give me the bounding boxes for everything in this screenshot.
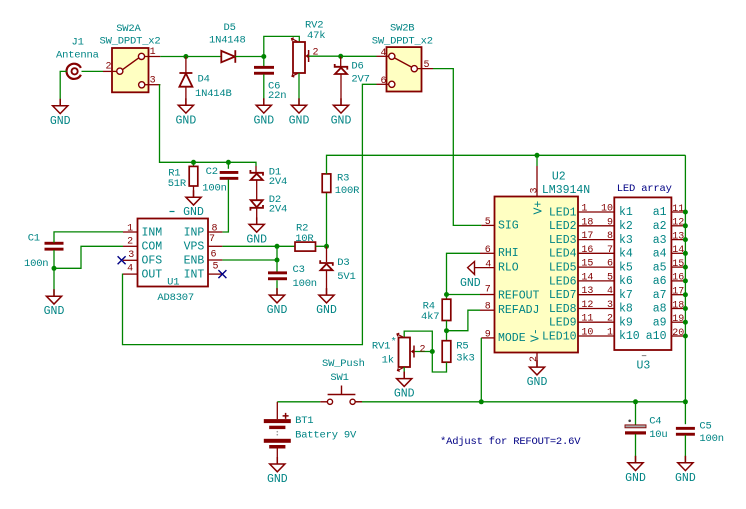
svg-text:1: 1 (150, 47, 156, 58)
svg-text:VPS: VPS (184, 241, 205, 254)
svg-text:GND: GND (394, 388, 415, 401)
node junction R1 (191, 160, 196, 165)
svg-text:100n: 100n (24, 258, 48, 270)
pin U3 a7 to rail (671, 294, 685, 296)
pin U3 a4 to rail (671, 252, 685, 254)
resistor R4 4k7 (442, 299, 451, 320)
svg-text:a5: a5 (653, 261, 667, 274)
pin U3 a5 to rail (671, 266, 685, 268)
svg-text:BT1: BT1 (295, 415, 313, 427)
pin U2 LED3 to U3 k3 (578, 239, 614, 241)
svg-text:10u: 10u (649, 429, 667, 441)
wire C6 to GND (263, 74, 265, 105)
svg-text:GND: GND (176, 114, 197, 127)
ground GND at RV2 (291, 98, 306, 113)
pin U3 a8 to rail (671, 308, 685, 310)
wire MODE to bottom rail (480, 338, 482, 402)
svg-text:2V4: 2V4 (269, 203, 287, 215)
svg-text:V-: V- (530, 328, 543, 342)
node junction a3 rail (683, 237, 688, 242)
node junction C2 (226, 160, 231, 165)
svg-text:5V1: 5V1 (337, 271, 355, 283)
node junction D4 tap (183, 54, 188, 59)
svg-text:LED4: LED4 (549, 248, 577, 261)
svg-text:GND: GND (625, 472, 646, 485)
svg-text:11: 11 (672, 204, 684, 215)
capacitor C2 100n (220, 171, 239, 180)
pin U3 a9 to rail (671, 321, 685, 323)
wire C1 node to GND (53, 268, 55, 296)
svg-text:10R: 10R (295, 233, 314, 245)
svg-text:LED2: LED2 (549, 220, 577, 233)
svg-text:V+: V+ (533, 201, 546, 215)
svg-text:C1: C1 (28, 232, 40, 244)
IC U3 LED array (614, 183, 671, 373)
wire D4 to GND (185, 87, 187, 106)
svg-text:13: 13 (672, 231, 684, 242)
svg-text:a4: a4 (653, 248, 667, 261)
node junction C5/rail (683, 399, 688, 404)
svg-text:INP: INP (184, 226, 205, 239)
svg-text:a9: a9 (653, 316, 667, 329)
ground GND at D3 (319, 288, 334, 303)
svg-text:LED1: LED1 (549, 206, 577, 219)
svg-text:OFS: OFS (142, 255, 163, 268)
wire SW2B pin5 to U2 SIG (433, 69, 481, 226)
svg-text:GND: GND (44, 305, 65, 318)
svg-text:9: 9 (607, 217, 613, 228)
pin U3 a1 to rail (671, 211, 685, 213)
node junction R4/R5/REFADJ (444, 328, 449, 333)
pin SW2B pin5 (417, 68, 433, 70)
svg-text:k1: k1 (619, 206, 633, 219)
svg-text:19: 19 (672, 314, 684, 325)
pin U3 a2 to rail (671, 225, 685, 227)
pin U1 pin2 COM (123, 245, 138, 247)
svg-text:13: 13 (581, 286, 593, 297)
no-connect X at U1 pin5 (218, 270, 226, 278)
svg-text:k4: k4 (619, 248, 633, 261)
svg-text:5: 5 (424, 60, 430, 71)
svg-text:2: 2 (106, 62, 112, 73)
wire R1 to GND (193, 186, 195, 197)
pin U2 pin6 RHI (480, 252, 495, 254)
wire rail to C4 (635, 402, 637, 425)
wire ENB to C3 node (222, 259, 277, 261)
pin U2 pin4 RLO (475, 267, 495, 269)
wire R3 to VPS node (326, 192, 328, 246)
pin SW2B pin4 (377, 55, 390, 57)
wire battery to SW1 (277, 401, 320, 403)
wire node to R5 (446, 331, 448, 341)
svg-text:10: 10 (581, 328, 593, 339)
svg-text:GND: GND (289, 114, 310, 127)
wire R2 to D3 node (316, 245, 327, 247)
svg-text:SW2A: SW2A (116, 23, 141, 35)
svg-text:100n: 100n (202, 182, 226, 194)
svg-text:47k: 47k (307, 30, 325, 42)
svg-text:ENB: ENB (184, 255, 205, 268)
svg-text:a3: a3 (653, 234, 667, 247)
diode D4 1N414B (179, 73, 192, 87)
svg-text:MODE: MODE (498, 332, 526, 345)
svg-text:3: 3 (128, 250, 134, 261)
svg-text:100R: 100R (335, 185, 360, 197)
svg-text:LM3914N: LM3914N (542, 184, 590, 197)
svg-text:8: 8 (212, 223, 218, 234)
svg-text:18: 18 (672, 300, 684, 311)
pin SW2A pin2 (103, 70, 117, 72)
svg-text:2: 2 (529, 356, 540, 362)
diode D5 1N4148 (221, 50, 235, 63)
resistor R5 3k3 (442, 341, 451, 363)
wire SW2A pin3 to R1/C2/D1 (160, 85, 257, 166)
svg-text:D4: D4 (198, 74, 210, 86)
svg-text:15: 15 (581, 259, 593, 270)
svg-text:14: 14 (581, 272, 593, 283)
wire C6 node to RV2 pin1 (264, 36, 300, 56)
wire node to C6 (263, 57, 265, 67)
IC U2 LM3914N (495, 171, 591, 353)
wire VPS node to ENB node (276, 246, 278, 260)
svg-text:Antenna: Antenna (56, 50, 99, 62)
wire RV2 pin3 to GND (298, 73, 300, 105)
wire C1 to U1 INM (54, 232, 123, 243)
svg-text:U2: U2 (552, 171, 566, 184)
svg-text:LED7: LED7 (549, 289, 577, 302)
pin U1 pin3 OFS (123, 259, 138, 261)
svg-text:k8: k8 (619, 303, 633, 316)
node junction REFOUT/R4 (444, 292, 449, 297)
svg-text:GND: GND (267, 304, 288, 317)
pin U2 pin9 MODE (481, 337, 494, 339)
no-connect X at U1 pin3 (118, 256, 126, 264)
svg-text:REFOUT: REFOUT (498, 290, 540, 303)
pin U2 LED9 to U3 k9 (578, 321, 614, 323)
pin U2 LED2 to U3 k2 (578, 225, 614, 227)
svg-text:100n: 100n (293, 278, 317, 290)
node junction a10 rail (683, 334, 688, 339)
node junction a8 rail (683, 306, 688, 311)
node junction C4 (633, 399, 638, 404)
wire V+ rail (327, 155, 686, 174)
svg-text:GND: GND (50, 115, 71, 128)
svg-text:GND: GND (316, 304, 337, 317)
capacitor C6 22n (254, 66, 274, 75)
wire RV2 wiper to junction (309, 55, 341, 57)
svg-text:6: 6 (211, 250, 217, 261)
wire SW2A pin1 to D5 (160, 56, 221, 58)
svg-text:17: 17 (581, 231, 593, 242)
pin U2 LED6 to U3 k6 (578, 280, 614, 282)
ground GND at R1 (186, 190, 201, 205)
svg-text:GND: GND (460, 277, 481, 290)
svg-text:RLO: RLO (498, 261, 519, 274)
svg-text:D6: D6 (351, 60, 363, 72)
svg-text:GND: GND (527, 376, 548, 389)
svg-text:2: 2 (607, 314, 613, 325)
pin U2 pin3 V+ (536, 166, 538, 197)
svg-text:GND: GND (331, 114, 352, 127)
svg-text:16: 16 (581, 245, 593, 256)
wire SW1 to right rail (355, 401, 685, 403)
resistor R1 51R (189, 166, 198, 186)
svg-text:C2: C2 (206, 166, 218, 178)
svg-text:7: 7 (607, 245, 613, 256)
svg-text:a1: a1 (653, 206, 667, 219)
svg-text:LED10: LED10 (542, 330, 577, 343)
svg-text:LED3: LED3 (549, 234, 577, 247)
pin U3 a6 to rail (671, 280, 685, 282)
svg-text:3: 3 (150, 76, 156, 87)
svg-text:D3: D3 (337, 257, 349, 269)
svg-text:a8: a8 (653, 303, 667, 316)
ground GND at D6 (333, 98, 348, 113)
wire C3 to GND (276, 280, 278, 295)
svg-text:GND: GND (253, 114, 274, 127)
svg-text:k5: k5 (619, 261, 633, 274)
svg-text:1N4148: 1N4148 (209, 35, 246, 47)
svg-text:14: 14 (672, 245, 684, 256)
wire antenna to GND (60, 71, 67, 105)
wire RHI to REFOUT (447, 253, 481, 294)
wire R5 to wiper node (432, 352, 446, 373)
wire C2 to U1 INP (222, 179, 228, 232)
svg-text:SW_DPDT_x2: SW_DPDT_x2 (372, 36, 433, 48)
pin U2 pin7 REFOUT (480, 294, 495, 296)
ground GND at RV1 (397, 372, 412, 387)
wire C5 to GND (684, 435, 686, 463)
node junction C6/RV2 (261, 54, 266, 59)
zener diode D2 2V4 (cathode down) (250, 200, 263, 210)
wire node to R4 (446, 295, 448, 300)
svg-text:D5: D5 (224, 22, 236, 34)
wire junction to SW2B pin4 (341, 55, 377, 57)
svg-text:8: 8 (485, 302, 491, 313)
svg-text:SIG: SIG (498, 220, 519, 233)
svg-text:*Adjust for REFOUT=2.6V: *Adjust for REFOUT=2.6V (440, 436, 581, 448)
svg-text:k2: k2 (619, 220, 633, 233)
node junction U2 V+ (535, 153, 540, 158)
pin U1 pin8 INP (208, 231, 222, 233)
ground GND at U2 (529, 360, 544, 375)
wire RV1 pin3 to GND (403, 367, 405, 379)
svg-text:COM: COM (142, 241, 163, 254)
svg-text:15: 15 (672, 259, 684, 270)
wire rail to C5 (684, 402, 686, 424)
svg-text:4: 4 (607, 286, 613, 297)
potentiometer RV2 47k (292, 19, 326, 77)
wire to D1 (255, 166, 257, 172)
pin U2 LED4 to U3 k4 (578, 252, 614, 254)
node junction a7 rail (683, 292, 688, 297)
switch SW2B SW_DPDT_x2 (372, 23, 433, 92)
pin U2 LED10 to U3 k10 (578, 335, 614, 337)
wire node to R2 (277, 245, 295, 247)
svg-text:17: 17 (672, 287, 684, 298)
svg-text:C5: C5 (699, 420, 711, 432)
svg-text:k6: k6 (619, 275, 633, 288)
svg-text:3: 3 (530, 187, 541, 193)
svg-text:C3: C3 (293, 264, 305, 276)
svg-text:R3: R3 (337, 172, 349, 184)
pin U2 LED8 to U3 k8 (578, 308, 614, 310)
svg-text:4: 4 (381, 48, 387, 59)
potentiometer RV1 1k (372, 333, 414, 371)
svg-text:8: 8 (607, 231, 613, 242)
svg-text:R5: R5 (456, 340, 468, 352)
svg-text:3: 3 (607, 300, 613, 311)
wire wiper node to RV1 pin1 (404, 331, 432, 351)
svg-text:51R: 51R (168, 178, 187, 190)
pin U2 LED5 to U3 k5 (578, 266, 614, 268)
pin U1 pin6 ENB (208, 259, 222, 261)
wire D6 to GND (340, 74, 342, 105)
node junction a6 rail (683, 278, 688, 283)
svg-text:1N414B: 1N414B (195, 88, 232, 100)
resistor R3 100R (322, 174, 331, 193)
pin U1 pin1 INM (123, 231, 138, 233)
svg-text:U3: U3 (637, 360, 651, 373)
svg-text:1: 1 (127, 223, 133, 234)
svg-text:6: 6 (381, 76, 387, 87)
pin U2 pin5 SIG (481, 224, 494, 226)
svg-text:6: 6 (607, 259, 613, 270)
zener diode D6 2V7 (335, 64, 348, 74)
wire D1 to D2 (256, 180, 258, 200)
svg-text:LED8: LED8 (549, 303, 577, 316)
wire node to C3 (276, 260, 278, 272)
svg-text:C4: C4 (649, 415, 661, 427)
wire VPS to R2 node (222, 245, 277, 247)
svg-text:4k7: 4k7 (421, 311, 439, 323)
wire C4 to GND (635, 434, 637, 463)
node junction a4 rail (683, 251, 688, 256)
wire C1 node to U1 COM (54, 246, 123, 268)
svg-text:a6: a6 (653, 275, 667, 288)
svg-text:2V7: 2V7 (351, 73, 369, 85)
svg-text:INM: INM (142, 226, 163, 239)
svg-text:18: 18 (581, 217, 593, 228)
svg-text:U1: U1 (167, 276, 179, 288)
svg-text:5: 5 (213, 261, 219, 272)
node junction VPS/C3 (275, 244, 280, 249)
svg-text:20: 20 (672, 328, 684, 339)
svg-text:k10: k10 (619, 330, 640, 343)
op-amp U1 AD8307 (138, 212, 209, 305)
node junction RV1 wiper (430, 349, 435, 354)
svg-text:k9: k9 (619, 316, 633, 329)
pin U3 a3 to rail (671, 239, 685, 241)
pin SW2A pin1 (144, 56, 160, 58)
zener diode D1 2V4 (250, 170, 263, 180)
ground GND at C5 (678, 456, 693, 471)
battery BT1 9V (264, 402, 357, 464)
svg-text:AD8307: AD8307 (157, 292, 194, 304)
svg-text:Battery 9V: Battery 9V (295, 429, 357, 441)
wire junction to R1 (193, 162, 195, 166)
wire node to D3 (326, 246, 328, 262)
wire D3 to GND (326, 270, 328, 295)
ground GND at C6 (256, 98, 271, 113)
svg-text:3k3: 3k3 (456, 353, 474, 365)
capacitor C5 100n (676, 427, 695, 436)
ground GND at BT1 (270, 457, 285, 472)
connector J1 Antenna (56, 37, 99, 79)
wire D5 to C6 node (235, 56, 263, 58)
ground GND at D2 (249, 217, 264, 232)
svg-text:4: 4 (127, 263, 133, 274)
svg-text:GND: GND (183, 206, 204, 219)
wire C1 to GND node (53, 250, 55, 268)
svg-text:100n: 100n (699, 433, 723, 445)
svg-text:1k: 1k (382, 355, 394, 367)
svg-text:5: 5 (607, 272, 613, 283)
node junction R2/R3/D3 (324, 244, 329, 249)
pin U2 pin8 REFADJ (480, 309, 495, 311)
switch SW1 SW_Push (320, 386, 362, 405)
pin SW2A pin3 (145, 84, 160, 86)
svg-text:a2: a2 (653, 220, 667, 233)
node junction D6/SW2B (338, 54, 343, 59)
node junction a5 rail (683, 265, 688, 270)
svg-text:INT: INT (184, 269, 205, 282)
wire node to D4 (185, 57, 187, 73)
svg-text:5: 5 (485, 217, 491, 228)
svg-text:*: * (391, 337, 397, 349)
capacitor C3 100n (268, 271, 287, 280)
pin U1 pin5 INT (208, 273, 222, 275)
ground GND at C3 (269, 288, 284, 303)
capacitor C4 10u (polarized) (625, 415, 668, 441)
svg-text:2: 2 (127, 237, 133, 248)
wire R4 to node (446, 321, 448, 331)
ground GND at C1 (46, 289, 61, 304)
svg-text:10: 10 (601, 204, 613, 215)
wire rail to U2 V+ (536, 155, 538, 166)
svg-text:LED5: LED5 (549, 262, 577, 275)
svg-text:RV1: RV1 (372, 340, 390, 352)
svg-text:GND: GND (246, 233, 267, 246)
svg-text:J1: J1 (72, 37, 84, 49)
capacitor C1 100n (45, 242, 64, 251)
svg-text:REFADJ: REFADJ (498, 304, 539, 317)
pin U2 LED1 to U3 k1 (578, 211, 614, 213)
svg-text:22n: 22n (268, 90, 286, 102)
switch SW2A SW_DPDT_x2 (100, 23, 161, 92)
svg-text:12: 12 (672, 218, 684, 229)
wire D2 to GND (256, 208, 258, 224)
svg-text:1: 1 (607, 328, 613, 339)
resistor R2 10R (295, 242, 316, 251)
svg-text:6: 6 (485, 245, 491, 256)
pin U2 pin2 V- (536, 353, 538, 368)
svg-text:SW_DPDT_x2: SW_DPDT_x2 (100, 36, 161, 48)
svg-text:LED array: LED array (617, 183, 672, 195)
ground GND at C4 (628, 456, 643, 471)
pin U2 LED7 to U3 k7 (578, 294, 614, 296)
svg-text:a7: a7 (653, 289, 667, 302)
svg-text:16: 16 (672, 273, 684, 284)
svg-text:SW1: SW1 (330, 372, 348, 384)
ground GND at J1 (53, 99, 68, 114)
svg-text:7: 7 (209, 234, 215, 245)
svg-text:k3: k3 (619, 234, 633, 247)
svg-text:LED6: LED6 (549, 275, 577, 288)
wire antenna to SW2A pin2 (82, 70, 104, 72)
node junction C1/COM (52, 266, 57, 271)
wire node to REFADJ (447, 310, 481, 331)
